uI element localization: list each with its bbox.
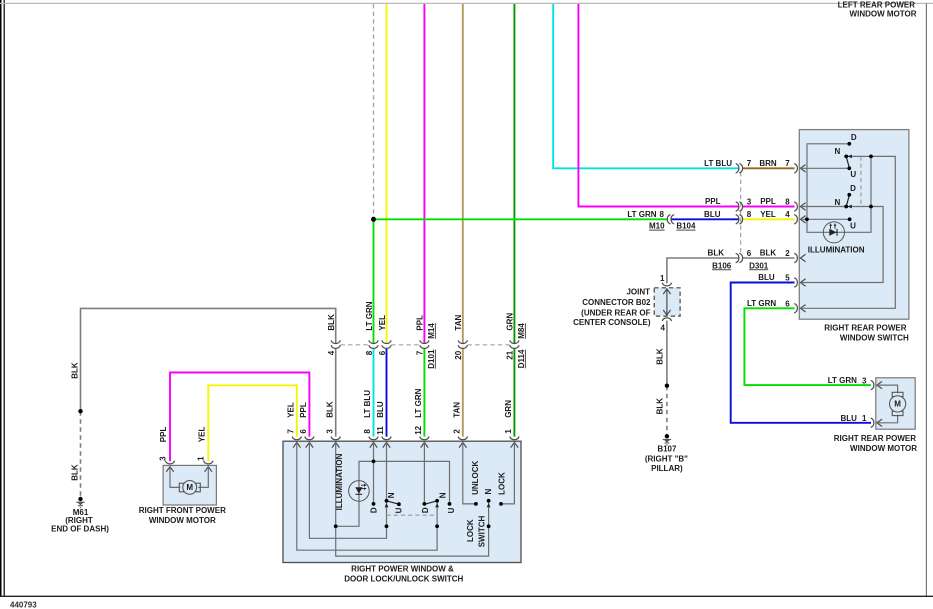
svg-text:PPL: PPL	[159, 427, 168, 443]
row 6 labels LT GRN 6	[747, 299, 790, 308]
wire PPL front motor to pin 6	[170, 373, 309, 462]
svg-text:6: 6	[747, 249, 752, 258]
RIGHT REAR MOTOR BOX	[871, 378, 916, 429]
svg-text:RIGHT FRONT POWER: RIGHT FRONT POWER	[139, 506, 226, 515]
wire BRN D301 row1 to switch	[743, 167, 795, 169]
connector D301 column	[736, 164, 743, 263]
mechanical link dashed (rear switch)	[860, 156, 862, 206]
wire BLU from switch pin5 to rear motor	[731, 283, 871, 423]
svg-text:ILLUMINATION: ILLUMINATION	[808, 246, 865, 255]
node splice dot BLK	[665, 384, 669, 388]
frame bottom line	[0, 595, 933, 597]
switch sw2 window (pin 12)	[421, 492, 456, 528]
svg-text:GRN: GRN	[506, 313, 515, 331]
svg-text:M: M	[894, 400, 901, 409]
svg-text:END OF DASH): END OF DASH)	[51, 524, 109, 533]
wire BLK B02 to B107 ground	[666, 321, 668, 386]
connector M10/B104	[627, 210, 696, 231]
wire LT BLU (below connector, pin 8)	[373, 348, 375, 437]
wire LT GRN from switch pin6 to rear motor	[744, 308, 871, 385]
svg-text:1: 1	[660, 274, 665, 283]
wire TAN trunk to pin 2	[462, 4, 464, 343]
svg-text:D101: D101	[427, 349, 436, 369]
node junction dot pin3/LED branch	[334, 524, 338, 528]
node splice dot BLK	[78, 409, 82, 413]
motor symbol	[892, 392, 903, 396]
wire LT GRN (below connector, pin 12)	[423, 348, 425, 437]
svg-text:D: D	[851, 133, 857, 142]
svg-text:2: 2	[785, 249, 790, 258]
wire PPL trunk to D301 row 2	[578, 4, 738, 207]
svg-text:BLK: BLK	[325, 401, 334, 418]
motor symbol	[179, 483, 183, 492]
svg-text:D: D	[850, 184, 856, 193]
svg-text:YEL: YEL	[760, 210, 776, 219]
svg-text:BLK: BLK	[71, 464, 80, 481]
svg-text:3: 3	[862, 376, 867, 385]
svg-text:1: 1	[197, 456, 206, 461]
svg-text:LT BLU: LT BLU	[363, 390, 372, 418]
svg-text:7: 7	[747, 159, 752, 168]
off-page label LEFT REAR POWER WINDOW MOTOR	[838, 1, 917, 19]
lock switch	[466, 460, 507, 547]
row 2 labels PPL / 3 PPL 8	[705, 197, 790, 206]
svg-text:(UNDER REAR OF: (UNDER REAR OF	[581, 308, 650, 317]
svg-text:1: 1	[504, 429, 513, 434]
node junction dot LT GRN	[371, 217, 376, 222]
wire BLU (below connector, pin 11)	[386, 348, 388, 437]
svg-text:8: 8	[660, 210, 665, 219]
svg-text:BLK: BLK	[327, 314, 336, 331]
svg-text:RIGHT REAR POWER: RIGHT REAR POWER	[834, 434, 916, 443]
main box entry cups and arrows	[292, 437, 519, 448]
svg-text:U: U	[850, 170, 856, 179]
LED illumination (rear switch)	[823, 222, 844, 243]
LED illumination (main box)	[349, 481, 370, 502]
frame top line	[0, 2, 933, 4]
svg-text:U: U	[850, 222, 856, 231]
svg-text:6: 6	[785, 299, 790, 308]
labels above main switch box (wire colors)	[286, 388, 513, 417]
row 4 labels BLK 6 BLK 2 B106 D301	[708, 249, 791, 271]
svg-text:3: 3	[158, 456, 167, 461]
svg-text:LT GRN: LT GRN	[365, 301, 374, 330]
svg-text:D: D	[421, 507, 430, 513]
label RIGHT FRONT POWER WINDOW MOTOR	[139, 506, 226, 525]
svg-text:N: N	[835, 147, 841, 156]
svg-text:4: 4	[661, 324, 666, 333]
svg-text:LT GRN: LT GRN	[414, 388, 423, 417]
svg-text:N: N	[484, 488, 493, 494]
wire dashed offpage trunk (to junction)	[373, 4, 375, 219]
svg-text:8: 8	[365, 350, 374, 355]
svg-text:3: 3	[747, 197, 752, 206]
svg-text:4: 4	[785, 210, 790, 219]
row 1 labels LT BLU / 7 BRN 7	[704, 159, 790, 168]
wire GRN trunk to pin 1	[513, 4, 515, 343]
svg-text:M10: M10	[649, 222, 665, 231]
svg-text:YEL: YEL	[197, 427, 206, 443]
wire pin1 to lock contact	[501, 442, 514, 504]
pin labels below connector row	[327, 349, 526, 369]
svg-text:D: D	[369, 507, 378, 513]
svg-text:1: 1	[862, 414, 867, 423]
frame left double border	[1, 0, 4, 597]
RIGHT REAR SWITCH BOX	[799, 130, 909, 320]
wire YEL trunk	[386, 4, 388, 343]
svg-text:6: 6	[378, 350, 387, 355]
joint connector B02 box	[654, 274, 680, 333]
wire pin2 to unlock contact	[463, 442, 476, 504]
RIGHT FRONT POWER WINDOW MOTOR box	[163, 461, 216, 505]
svg-text:WINDOW MOTOR: WINDOW MOTOR	[149, 516, 216, 525]
svg-text:8: 8	[747, 210, 752, 219]
svg-text:WINDOW SWITCH: WINDOW SWITCH	[840, 333, 909, 342]
svg-text:CONNECTOR B02: CONNECTOR B02	[582, 298, 651, 307]
svg-text:U: U	[447, 507, 456, 513]
wire BLK row4 to B02	[667, 258, 739, 283]
svg-text:(RIGHT "B": (RIGHT "B"	[645, 455, 688, 464]
svg-text:21: 21	[506, 350, 515, 359]
svg-text:3: 3	[325, 429, 334, 434]
wire pin7 to sw2 pole	[297, 442, 437, 550]
rear switch swB	[805, 184, 873, 231]
wire LT GRN horizontal from junction to M10	[374, 218, 668, 220]
frame right border	[925, 4, 927, 597]
svg-text:PPL: PPL	[416, 315, 425, 331]
svg-text:TAN: TAN	[452, 402, 461, 418]
svg-text:BLK: BLK	[71, 362, 80, 379]
wire PPL trunk	[423, 4, 425, 343]
svg-text:BLU: BLU	[704, 210, 721, 219]
switch sw1 window (pins 8/11)	[369, 492, 403, 528]
svg-text:BLK: BLK	[760, 249, 777, 258]
svg-text:RIGHT POWER WINDOW &: RIGHT POWER WINDOW &	[351, 565, 454, 574]
svg-text:PPL: PPL	[299, 402, 308, 418]
svg-text:TAN: TAN	[454, 315, 463, 331]
wire pin7 BRN to swA U	[800, 167, 849, 169]
rear switch entries	[794, 164, 805, 313]
wire pin6 to sw1 pole	[309, 442, 386, 538]
label JOINT CONNECTOR B02	[573, 288, 651, 328]
svg-text:WINDOW MOTOR: WINDOW MOTOR	[850, 444, 917, 453]
svg-text:BLK: BLK	[655, 398, 664, 415]
wire PPL D301 row2 to switch	[743, 206, 795, 208]
svg-text:7: 7	[286, 429, 295, 434]
wire LED branch	[807, 156, 871, 232]
labels above connector row	[327, 301, 526, 339]
wire BLK D301 row4 to switch	[743, 257, 795, 259]
svg-text:LT GRN: LT GRN	[627, 210, 656, 219]
svg-text:N: N	[387, 492, 396, 498]
wire LT GRN vertical (junction down to connector)	[373, 219, 375, 343]
label under main box	[344, 565, 463, 584]
MAIN SWITCH BOX	[283, 441, 521, 562]
svg-text:PPL: PPL	[705, 197, 721, 206]
wire LED branch	[336, 461, 450, 526]
svg-text:JOINT: JOINT	[626, 288, 650, 297]
wire pin8 to sw1 D	[373, 442, 375, 503]
pin numbers above main switch box	[286, 425, 513, 434]
svg-text:LT GRN: LT GRN	[747, 299, 776, 308]
svg-text:7: 7	[416, 350, 425, 355]
wire pin12 to sw2 D	[423, 442, 425, 503]
svg-text:WINDOW MOTOR: WINDOW MOTOR	[850, 9, 917, 18]
svg-text:D114: D114	[517, 349, 526, 368]
svg-text:BLK: BLK	[655, 348, 664, 365]
svg-text:B104: B104	[676, 222, 696, 231]
svg-text:SWITCH: SWITCH	[477, 516, 486, 548]
svg-text:YEL: YEL	[378, 315, 387, 331]
svg-text:BLK: BLK	[708, 249, 725, 258]
svg-text:RIGHT REAR POWER: RIGHT REAR POWER	[824, 324, 906, 333]
svg-text:4: 4	[327, 350, 336, 355]
wire swA D branch	[807, 144, 849, 220]
svg-text:N: N	[835, 198, 841, 207]
svg-text:B106: B106	[712, 261, 732, 270]
svg-text:12: 12	[414, 425, 423, 434]
wire pin11 to sw1 pivot	[386, 442, 388, 500]
svg-text:8: 8	[785, 197, 790, 206]
svg-text:N: N	[439, 492, 448, 498]
label RIGHT REAR POWER WINDOW SWITCH	[824, 324, 909, 343]
rear motor wire labels LT GRN 3 / BLU 1	[828, 376, 867, 423]
svg-text:PILLAR): PILLAR)	[651, 464, 683, 473]
row 5 labels BLU 5	[758, 273, 790, 282]
wire BLU between M10/B104 and D301 row 3	[671, 218, 739, 220]
svg-text:20: 20	[454, 350, 463, 359]
svg-text:M84: M84	[517, 323, 526, 339]
svg-text:440793: 440793	[10, 601, 37, 609]
svg-text:5: 5	[785, 274, 790, 283]
svg-text:LOCK: LOCK	[498, 472, 507, 495]
rear switch swA	[835, 133, 873, 179]
wire BLK left ground run	[81, 308, 336, 411]
svg-text:8: 8	[363, 429, 372, 434]
row 3 labels BLU / 8 YEL 4	[704, 210, 790, 219]
wire pin4 YEL to swB U	[800, 218, 849, 220]
svg-text:LEFT REAR POWER: LEFT REAR POWER	[838, 1, 916, 10]
svg-text:BLU: BLU	[840, 414, 857, 423]
main box interior wires	[297, 442, 515, 556]
MID PAGE connector row (M14/D101 + M84/D114)	[331, 340, 519, 348]
svg-text:11: 11	[376, 426, 385, 435]
svg-text:2: 2	[452, 429, 461, 434]
svg-text:UNLOCK: UNLOCK	[471, 460, 480, 494]
svg-text:CENTER CONSOLE): CENTER CONSOLE)	[573, 318, 651, 327]
node junction dot pin8/LED line	[372, 460, 376, 464]
svg-text:D301: D301	[749, 261, 769, 270]
svg-text:6: 6	[299, 429, 308, 434]
svg-text:M14: M14	[427, 323, 436, 339]
wire pin3 down	[336, 442, 489, 556]
wire YEL D301 row3 to switch	[743, 218, 795, 220]
ground B107	[645, 434, 688, 473]
svg-text:7: 7	[785, 159, 790, 168]
svg-text:M: M	[186, 483, 193, 492]
wire BLK (below connector, pin 3)	[335, 348, 337, 437]
mechanical link dashed	[387, 514, 438, 516]
svg-text:B107: B107	[657, 445, 677, 454]
svg-text:BLU: BLU	[376, 401, 385, 418]
svg-text:PPL: PPL	[760, 197, 776, 206]
svg-text:LT BLU: LT BLU	[704, 159, 732, 168]
rear switch interior wires	[800, 144, 895, 308]
wire swA pole to pin6 LT GRN	[800, 156, 895, 308]
wire YEL front motor to pin 7	[208, 385, 296, 461]
svg-text:LOCK: LOCK	[466, 519, 475, 542]
ground M61	[51, 497, 109, 534]
label RIGHT REAR POWER WINDOW MOTOR	[834, 434, 917, 453]
svg-text:ILLUMINATION: ILLUMINATION	[335, 453, 344, 510]
wire pin8 PPL to swB pivot	[800, 206, 846, 208]
svg-text:BLU: BLU	[758, 273, 775, 282]
svg-text:DOOR LOCK/UNLOCK SWITCH: DOOR LOCK/UNLOCK SWITCH	[344, 575, 463, 584]
svg-text:YEL: YEL	[286, 402, 295, 418]
wire swB pole to pin5 BLU	[800, 207, 883, 283]
FRONT MOTOR labels PPL 3 / YEL 1	[158, 427, 206, 461]
wire LT BLU trunk to D301 row 1	[553, 4, 739, 168]
svg-text:GRN: GRN	[504, 400, 513, 418]
svg-text:BRN: BRN	[759, 159, 777, 168]
svg-text:U: U	[395, 507, 404, 513]
svg-text:LT GRN: LT GRN	[828, 376, 857, 385]
